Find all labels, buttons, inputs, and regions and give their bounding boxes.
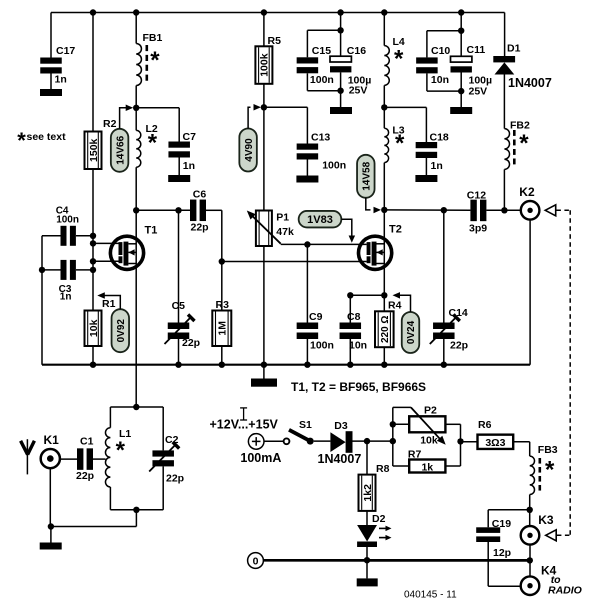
svg-text:*: * xyxy=(519,130,529,157)
svg-text:1M: 1M xyxy=(217,321,229,336)
svg-text:3p9: 3p9 xyxy=(469,223,487,235)
svg-text:C12: C12 xyxy=(467,190,486,202)
svg-text:RADIO: RADIO xyxy=(548,585,582,597)
svg-text:1N4007: 1N4007 xyxy=(508,76,552,90)
svg-text:C17: C17 xyxy=(56,45,75,57)
svg-text:C11: C11 xyxy=(467,44,486,56)
svg-text:T1, T2 = BF965, BF966S: T1, T2 = BF965, BF966S xyxy=(291,380,426,394)
svg-text:100n: 100n xyxy=(310,340,334,352)
svg-text:1n: 1n xyxy=(431,160,443,172)
svg-text:150k: 150k xyxy=(88,138,100,162)
svg-text:T2: T2 xyxy=(389,224,402,236)
svg-text:C19: C19 xyxy=(492,518,511,530)
svg-text:C15: C15 xyxy=(312,45,331,57)
svg-text:1N4007: 1N4007 xyxy=(318,452,362,466)
svg-text:*: * xyxy=(394,46,404,73)
svg-text:10n: 10n xyxy=(349,340,367,352)
svg-text:100k: 100k xyxy=(259,53,271,77)
svg-text:0V92: 0V92 xyxy=(116,319,127,343)
svg-text:*: * xyxy=(116,437,126,464)
svg-text:25V: 25V xyxy=(349,85,368,97)
svg-text:10n: 10n xyxy=(431,74,449,86)
svg-text:1n: 1n xyxy=(55,74,67,86)
svg-text:040145 - 11: 040145 - 11 xyxy=(404,590,457,601)
svg-text:14V66: 14V66 xyxy=(115,135,126,164)
svg-text:K2: K2 xyxy=(519,185,535,199)
svg-text:C1: C1 xyxy=(80,436,94,448)
svg-text:1V83: 1V83 xyxy=(307,214,333,226)
svg-text:K1: K1 xyxy=(44,433,60,447)
svg-text:22p: 22p xyxy=(166,473,184,485)
svg-text:C2: C2 xyxy=(165,434,179,446)
svg-text:1n: 1n xyxy=(60,292,72,303)
svg-text:R8: R8 xyxy=(376,463,390,475)
svg-text:220 Ω: 220 Ω xyxy=(380,316,391,343)
svg-text:see text: see text xyxy=(27,131,67,143)
svg-text:D1: D1 xyxy=(507,43,521,55)
svg-text:P2: P2 xyxy=(424,405,437,417)
svg-text:3Ω3: 3Ω3 xyxy=(485,437,505,449)
svg-text:*: * xyxy=(17,128,26,153)
svg-text:100mA: 100mA xyxy=(240,451,281,465)
svg-text:22p: 22p xyxy=(191,222,209,234)
svg-text:R1: R1 xyxy=(102,298,116,310)
svg-text:14V58: 14V58 xyxy=(362,161,373,190)
svg-text:C5: C5 xyxy=(172,300,186,312)
svg-text:100n: 100n xyxy=(322,160,346,172)
svg-text:FB3: FB3 xyxy=(538,444,558,456)
svg-text:R2: R2 xyxy=(103,118,117,130)
svg-text:S1: S1 xyxy=(299,419,312,431)
svg-text:4V90: 4V90 xyxy=(244,138,255,162)
svg-text:100n: 100n xyxy=(310,74,334,86)
svg-text:R4: R4 xyxy=(388,300,402,312)
svg-text:47k: 47k xyxy=(276,226,294,238)
svg-text:0V24: 0V24 xyxy=(406,320,417,344)
svg-text:1k2: 1k2 xyxy=(362,484,374,502)
svg-text:C14: C14 xyxy=(449,307,468,319)
svg-text:T1: T1 xyxy=(145,225,158,237)
svg-text:1n: 1n xyxy=(183,160,195,172)
svg-text:R3: R3 xyxy=(216,299,230,311)
svg-text:K3: K3 xyxy=(538,513,554,527)
svg-text:*: * xyxy=(545,457,555,484)
svg-text:22p: 22p xyxy=(182,337,200,349)
svg-text:10k: 10k xyxy=(88,319,100,337)
svg-text:*: * xyxy=(395,130,405,157)
svg-text:C8: C8 xyxy=(347,311,361,323)
svg-text:C6: C6 xyxy=(193,188,207,200)
svg-text:C10: C10 xyxy=(431,45,450,57)
svg-text:100n: 100n xyxy=(56,215,79,226)
svg-text:R5: R5 xyxy=(268,35,282,47)
svg-text:C9: C9 xyxy=(309,311,323,323)
svg-text:0: 0 xyxy=(253,555,259,567)
svg-text:P1: P1 xyxy=(276,212,289,224)
svg-text:*: * xyxy=(148,130,158,157)
svg-text:1k: 1k xyxy=(421,462,433,474)
svg-text:C16: C16 xyxy=(347,45,366,57)
svg-text:10k: 10k xyxy=(420,435,438,447)
svg-text:22p: 22p xyxy=(76,470,94,482)
svg-text:R7: R7 xyxy=(408,449,422,461)
svg-text:25V: 25V xyxy=(469,86,488,98)
svg-text:D2: D2 xyxy=(372,513,386,525)
svg-text:C13: C13 xyxy=(311,132,330,144)
svg-text:12p: 12p xyxy=(493,547,511,559)
svg-text:FB1: FB1 xyxy=(143,32,163,44)
svg-text:R6: R6 xyxy=(478,419,492,431)
svg-text:C7: C7 xyxy=(183,131,197,143)
svg-text:C18: C18 xyxy=(430,131,449,143)
svg-text:D3: D3 xyxy=(334,420,348,432)
svg-text:22p: 22p xyxy=(450,340,468,352)
svg-text:*: * xyxy=(150,47,160,74)
